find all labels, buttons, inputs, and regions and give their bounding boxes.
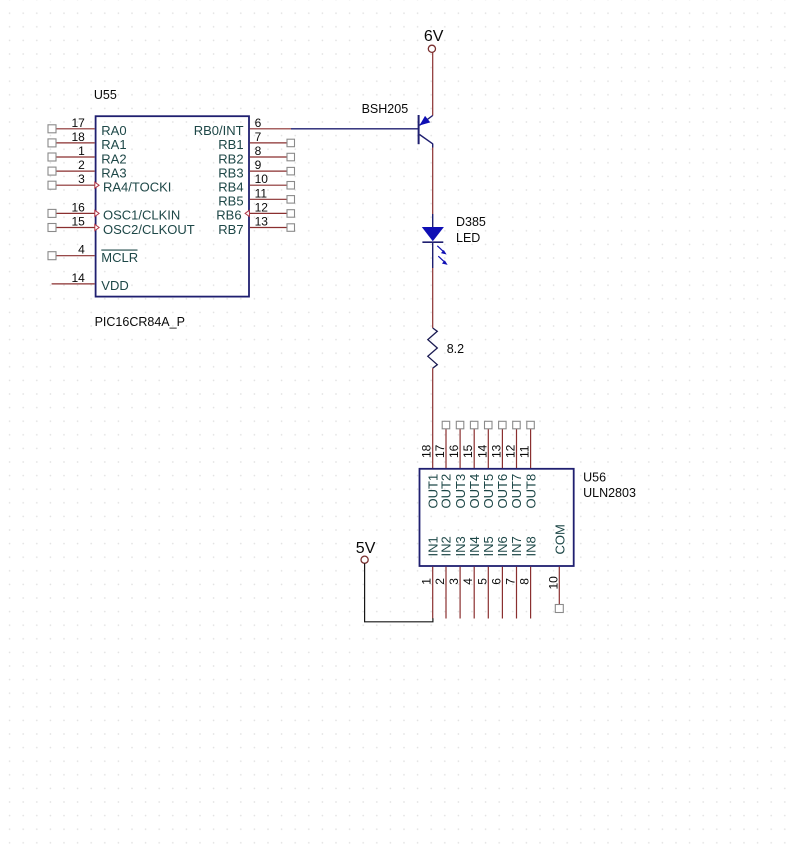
pin RA1 terminal square bbox=[48, 139, 56, 147]
pin 5 number bbox=[475, 578, 489, 585]
pin OSC2/CLKOUT terminal square bbox=[48, 224, 56, 232]
svg-text:9: 9 bbox=[255, 158, 262, 172]
pin MCLR terminal square bbox=[48, 252, 56, 260]
pin 3 number bbox=[447, 578, 461, 585]
pin RB3 wire bbox=[250, 170, 287, 172]
pin name IN7 bbox=[509, 536, 524, 556]
pin MCLR wire bbox=[56, 255, 95, 257]
pin RA1 wire bbox=[56, 142, 95, 144]
pin 13 wire bbox=[501, 429, 503, 468]
svg-text:13: 13 bbox=[255, 215, 269, 229]
pin name IN6 bbox=[495, 536, 510, 556]
pin 13 number bbox=[489, 444, 503, 458]
pin 15 wire bbox=[473, 429, 475, 468]
pin RB3 terminal square bbox=[287, 167, 295, 175]
pin RB7 wire bbox=[250, 227, 287, 229]
pin 17 wire bbox=[445, 429, 447, 468]
svg-text:15: 15 bbox=[71, 215, 85, 229]
svg-text:13: 13 bbox=[489, 444, 503, 458]
svg-text:8.2: 8.2 bbox=[447, 342, 464, 356]
pin 1 wire bbox=[432, 567, 434, 619]
svg-text:RA4/TOCKI: RA4/TOCKI bbox=[103, 180, 171, 195]
pin 4 number bbox=[461, 578, 475, 585]
svg-text:OUT7: OUT7 bbox=[509, 474, 524, 509]
svg-text:11: 11 bbox=[518, 445, 532, 458]
pin name OUT2 bbox=[439, 474, 454, 509]
svg-text:OUT6: OUT6 bbox=[495, 474, 510, 509]
resistor 8.2 bbox=[428, 328, 438, 368]
pin RB4 terminal square bbox=[287, 182, 295, 190]
svg-text:8: 8 bbox=[518, 578, 532, 585]
pin RB4 wire bbox=[250, 184, 287, 186]
svg-text:IN6: IN6 bbox=[495, 536, 510, 556]
pin name COM bbox=[553, 524, 568, 554]
pin 16 number bbox=[447, 444, 461, 458]
wire transistor collector to LED bbox=[432, 148, 434, 215]
pin 8 number bbox=[518, 578, 532, 585]
pin RA3 terminal square bbox=[48, 167, 56, 175]
svg-text:RB5: RB5 bbox=[218, 194, 243, 209]
supply 5V terminal circle bbox=[361, 556, 368, 563]
svg-text:18: 18 bbox=[71, 130, 85, 144]
svg-text:2: 2 bbox=[78, 158, 85, 172]
svg-text:RA1: RA1 bbox=[101, 137, 126, 152]
svg-text:RB2: RB2 bbox=[218, 151, 243, 166]
pin 12 wire bbox=[516, 429, 518, 468]
pin 17 terminal square bbox=[442, 421, 450, 429]
svg-text:7: 7 bbox=[255, 130, 262, 144]
svg-text:OUT4: OUT4 bbox=[467, 474, 482, 509]
pin name OUT1 bbox=[425, 474, 440, 509]
svg-text:15: 15 bbox=[461, 444, 475, 458]
wire 5V to U56 pin 1 bbox=[365, 563, 433, 622]
pin RB0/INT wire to transistor base bbox=[250, 128, 291, 130]
svg-text:RB1: RB1 bbox=[218, 137, 243, 152]
op-amp U55 IC body PIC16CR84A_P bbox=[96, 116, 249, 296]
svg-text:16: 16 bbox=[71, 200, 85, 214]
pin RB7 terminal square bbox=[287, 224, 295, 232]
svg-text:8: 8 bbox=[255, 144, 262, 158]
pin RA4/TOCKI terminal square bbox=[48, 181, 56, 189]
IC U56 ULN2803 body bbox=[420, 469, 574, 566]
svg-text:6: 6 bbox=[255, 116, 262, 130]
pin 12 terminal square bbox=[513, 421, 521, 429]
pin OSC1/CLKIN wire bbox=[56, 212, 95, 214]
pin VDD wire bbox=[52, 283, 95, 285]
pin name OUT4 bbox=[467, 474, 482, 509]
pin RA2 wire bbox=[56, 156, 95, 158]
pin 5 wire bbox=[487, 567, 489, 619]
pin RB2 wire bbox=[250, 156, 287, 158]
pin 16 terminal square bbox=[456, 421, 464, 429]
svg-text:OSC1/CLKIN: OSC1/CLKIN bbox=[103, 208, 180, 223]
pin name IN3 bbox=[453, 536, 468, 556]
pin name OUT5 bbox=[481, 474, 496, 509]
pin name OUT6 bbox=[495, 474, 510, 509]
svg-text:17: 17 bbox=[433, 444, 447, 458]
pin name IN1 bbox=[425, 536, 440, 556]
svg-text:OUT2: OUT2 bbox=[439, 474, 454, 509]
svg-text:MCLR: MCLR bbox=[101, 250, 138, 265]
pin 10 COM wire bbox=[558, 567, 560, 605]
svg-text:5: 5 bbox=[475, 578, 489, 585]
svg-text:3: 3 bbox=[447, 578, 461, 585]
pin 6 number bbox=[489, 578, 503, 585]
pin 11 terminal square bbox=[527, 421, 535, 429]
pin RB6 wire bbox=[250, 212, 287, 214]
pin 14 terminal square bbox=[485, 421, 493, 429]
pin RB2 terminal square bbox=[287, 153, 295, 161]
pin 2 number bbox=[433, 578, 447, 585]
svg-text:IN3: IN3 bbox=[453, 536, 468, 556]
pin 12 number bbox=[504, 444, 518, 458]
pin 16 wire bbox=[459, 429, 461, 468]
pin 7 number bbox=[504, 578, 518, 585]
svg-text:1: 1 bbox=[420, 578, 434, 585]
svg-text:12: 12 bbox=[255, 200, 269, 214]
supply 6V terminal circle bbox=[428, 45, 435, 52]
pin 14 number bbox=[475, 444, 489, 458]
svg-text:VDD: VDD bbox=[101, 278, 128, 293]
pin 7 wire bbox=[516, 567, 518, 619]
svg-text:16: 16 bbox=[447, 444, 461, 458]
svg-text:D385: D385 bbox=[456, 215, 486, 229]
pin RA2 terminal square bbox=[48, 153, 56, 161]
pin 10 number bbox=[546, 576, 560, 590]
svg-text:10: 10 bbox=[546, 576, 560, 590]
svg-text:18: 18 bbox=[420, 444, 434, 458]
svg-text:RA3: RA3 bbox=[101, 165, 126, 180]
svg-text:IN7: IN7 bbox=[509, 536, 524, 556]
pin name OUT7 bbox=[509, 474, 524, 509]
pin OSC1/CLKIN terminal square bbox=[48, 209, 56, 217]
svg-text:IN8: IN8 bbox=[523, 536, 538, 556]
svg-text:4: 4 bbox=[461, 578, 475, 585]
svg-text:COM: COM bbox=[553, 524, 568, 554]
pin 8 wire bbox=[530, 567, 532, 619]
svg-text:OUT3: OUT3 bbox=[453, 474, 468, 509]
svg-text:3: 3 bbox=[78, 172, 85, 186]
pin RB1 terminal square bbox=[287, 139, 295, 147]
svg-text:7: 7 bbox=[504, 578, 518, 585]
svg-text:RB3: RB3 bbox=[218, 165, 243, 180]
pin 3 wire bbox=[459, 567, 461, 619]
pin name IN2 bbox=[439, 536, 454, 556]
pin name IN4 bbox=[467, 536, 482, 556]
svg-text:LED: LED bbox=[456, 231, 480, 245]
svg-text:RA0: RA0 bbox=[101, 123, 126, 138]
input arrow RA4 bbox=[95, 182, 99, 188]
pin RA0 wire bbox=[56, 128, 95, 130]
LED D385 bbox=[422, 214, 447, 268]
svg-text:RB6: RB6 bbox=[216, 208, 241, 223]
svg-text:5V: 5V bbox=[356, 540, 376, 557]
svg-text:PIC16CR84A_P: PIC16CR84A_P bbox=[95, 315, 185, 329]
pin name OUT3 bbox=[453, 474, 468, 509]
pin 4 wire bbox=[473, 567, 475, 619]
svg-text:ULN2803: ULN2803 bbox=[583, 486, 636, 500]
pin 1 number bbox=[420, 578, 434, 585]
pin 10 terminal square bbox=[555, 605, 563, 613]
svg-text:17: 17 bbox=[71, 116, 85, 130]
svg-text:OUT8: OUT8 bbox=[523, 474, 538, 509]
pin 11 number bbox=[518, 445, 532, 458]
pin 17 number bbox=[433, 444, 447, 458]
wire LED to resistor bbox=[432, 268, 434, 328]
svg-text:OSC2/CLKOUT: OSC2/CLKOUT bbox=[103, 222, 195, 237]
svg-text:12: 12 bbox=[504, 444, 518, 458]
pin 2 wire bbox=[445, 567, 447, 619]
pin name IN5 bbox=[481, 536, 496, 556]
svg-text:RB0/INT: RB0/INT bbox=[194, 123, 244, 138]
svg-text:2: 2 bbox=[433, 578, 447, 585]
svg-text:RA2: RA2 bbox=[101, 151, 126, 166]
pin 11 wire bbox=[530, 429, 532, 468]
wire resistor to U56 pin 18 bbox=[432, 368, 434, 468]
pin 13 terminal square bbox=[499, 421, 507, 429]
svg-text:IN5: IN5 bbox=[481, 536, 496, 556]
pin RB1 wire bbox=[250, 142, 287, 144]
svg-text:U56: U56 bbox=[583, 471, 606, 485]
pin RB5 wire bbox=[250, 198, 287, 200]
svg-text:14: 14 bbox=[71, 271, 85, 285]
svg-text:OUT5: OUT5 bbox=[481, 474, 496, 509]
pin RA3 wire bbox=[56, 170, 95, 172]
pin OSC2/CLKOUT wire bbox=[56, 227, 95, 229]
transistor BSH205 (PNP) bbox=[291, 115, 433, 148]
svg-text:RB4: RB4 bbox=[218, 180, 243, 195]
svg-text:IN4: IN4 bbox=[467, 536, 482, 556]
pin 15 number bbox=[461, 444, 475, 458]
svg-text:14: 14 bbox=[475, 444, 489, 458]
svg-text:11: 11 bbox=[255, 186, 268, 200]
svg-text:4: 4 bbox=[78, 243, 85, 257]
svg-text:BSH205: BSH205 bbox=[362, 102, 409, 116]
input arrow OSC2 bbox=[95, 224, 99, 230]
wire 6V to transistor emitter bbox=[432, 52, 434, 115]
pin 6 wire bbox=[501, 567, 503, 619]
pin RA4/TOCKI wire bbox=[56, 184, 95, 186]
svg-text:RB7: RB7 bbox=[218, 222, 243, 237]
input arrow OSC1 bbox=[95, 210, 99, 216]
svg-text:6: 6 bbox=[489, 578, 503, 585]
svg-text:6V: 6V bbox=[424, 28, 444, 45]
pin RB5 terminal square bbox=[287, 196, 295, 204]
pin RB6 terminal square bbox=[287, 210, 295, 218]
pin 18 number bbox=[420, 444, 434, 458]
pin name OUT8 bbox=[523, 474, 538, 509]
svg-text:1: 1 bbox=[78, 144, 85, 158]
pin RA0 terminal square bbox=[48, 125, 56, 133]
pin 15 terminal square bbox=[470, 421, 478, 429]
svg-text:U55: U55 bbox=[94, 88, 117, 102]
svg-text:IN2: IN2 bbox=[439, 536, 454, 556]
input arrow RB6 bbox=[245, 210, 249, 216]
svg-text:10: 10 bbox=[255, 172, 269, 186]
pin 14 wire bbox=[487, 429, 489, 468]
pin name IN8 bbox=[523, 536, 538, 556]
